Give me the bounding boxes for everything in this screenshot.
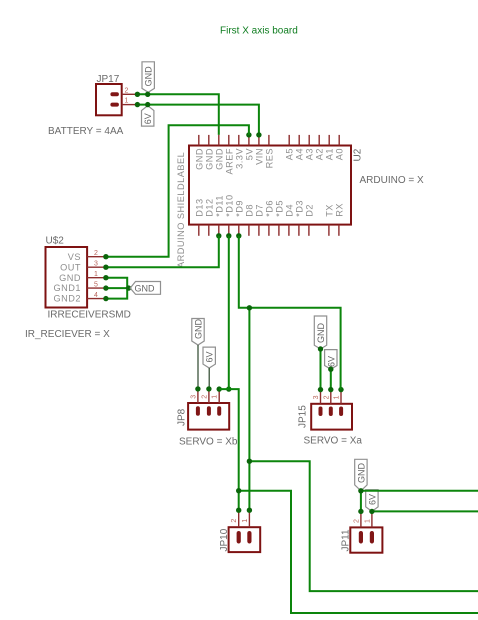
svg-text:2: 2: [94, 250, 98, 257]
svg-text:GND: GND: [135, 284, 156, 294]
wire net 6V from JP11 pin1 to right edge: [372, 510, 478, 512]
svg-text:GND2: GND2: [53, 293, 81, 303]
junction dots at U$2 pins: [103, 254, 131, 301]
svg-text:5: 5: [94, 281, 98, 288]
svg-text:D4: D4: [284, 204, 294, 217]
svg-text:ARDUINO SHIELDLABEL: ARDUINO SHIELDLABEL: [176, 152, 186, 268]
supply 6V flag at JP15: [325, 350, 337, 370]
svg-text:GND: GND: [214, 148, 224, 170]
svg-text:2: 2: [201, 395, 208, 399]
svg-text:*D5: *D5: [274, 200, 284, 217]
svg-text:1: 1: [334, 395, 341, 399]
svg-text:SERVO = Xb: SERVO = Xb: [179, 437, 238, 448]
svg-text:A0: A0: [335, 148, 345, 160]
IC U$2 IRRECEIVERSMD: [46, 247, 88, 308]
svg-text:2: 2: [125, 87, 129, 94]
svg-text:VS: VS: [68, 252, 81, 262]
svg-text:3: 3: [190, 395, 197, 399]
supply 6V flag at JP8: [203, 347, 215, 389]
wire net 6V: JP17 pin1 to Arduino VIN pin: [137, 105, 259, 135]
svg-text:1: 1: [364, 519, 371, 523]
svg-text:GND: GND: [194, 148, 204, 170]
JP15 pin stubs: [321, 390, 342, 404]
U$2 pin stubs: [87, 257, 106, 299]
svg-text:*D3: *D3: [294, 200, 304, 217]
svg-text:*D6: *D6: [264, 200, 274, 217]
junction dots at JP8 pins: [195, 386, 231, 392]
wire net *D9 branch to bottom right: [249, 461, 478, 591]
svg-text:1: 1: [242, 519, 249, 523]
svg-text:RES: RES: [264, 148, 274, 168]
svg-text:GND: GND: [194, 319, 204, 340]
wire JP15 6V stub: [330, 369, 332, 389]
svg-text:RX: RX: [334, 203, 344, 217]
wire JP11 GND stub: [360, 491, 362, 512]
svg-text:D2: D2: [304, 204, 314, 217]
svg-text:GND1: GND1: [53, 283, 81, 293]
wire net GND from JP11 pin2 to right edge: [361, 490, 478, 492]
svg-text:*D9: *D9: [234, 200, 244, 217]
wire IR GND1 to GND flag: [106, 287, 130, 289]
wire net OUT to *D11: [106, 236, 219, 267]
wire net *D10 branch to bottom right: [239, 491, 478, 613]
JP8 pin stubs: [198, 389, 219, 403]
svg-text:IRRECEIVERSMD: IRRECEIVERSMD: [48, 310, 131, 321]
svg-text:JP10: JP10: [219, 528, 230, 551]
svg-text:BATTERY = 4AA: BATTERY = 4AA: [48, 126, 124, 137]
JP11 pin stubs: [361, 511, 372, 527]
svg-text:2: 2: [231, 519, 238, 523]
U$2 pin numbers: [94, 250, 98, 299]
JP11 pin numbers: [353, 519, 371, 523]
svg-text:JP11: JP11: [340, 529, 351, 551]
svg-text:D13: D13: [194, 198, 204, 216]
svg-text:A4: A4: [295, 148, 305, 160]
svg-text:6V: 6V: [143, 113, 153, 124]
junction dots *D9 branches: [247, 305, 252, 464]
supply GND flag at JP8: [192, 319, 204, 389]
svg-text:IR_RECIEVER = X: IR_RECIEVER = X: [25, 329, 110, 340]
wire net *D10: Arduino to JP8 pin1 and beyond: [228, 236, 230, 389]
svg-text:U$2: U$2: [46, 236, 65, 247]
supply GND flag at JP17: [142, 62, 154, 93]
JP15 pin numbers: [313, 395, 341, 399]
wire JP15 GND stub: [320, 349, 322, 390]
svg-text:TX: TX: [324, 204, 334, 217]
svg-text:1: 1: [212, 395, 219, 399]
svg-text:OUT: OUT: [60, 263, 81, 273]
supply GND flag at JP15: [314, 316, 326, 349]
svg-text:2: 2: [323, 395, 330, 399]
supply GND flag at JP11: [355, 459, 367, 491]
svg-text:2: 2: [353, 519, 360, 523]
wire net VS to 5V: [106, 125, 249, 257]
svg-text:JP17: JP17: [97, 74, 120, 85]
svg-text:SERVO = Xa: SERVO = Xa: [304, 436, 363, 447]
junction dots at JP10 pins: [236, 508, 252, 513]
U2 top pin stubs: [199, 135, 339, 146]
svg-text:4: 4: [94, 292, 98, 299]
wire net GND: JP17 pin2 to Arduino GND pin: [137, 94, 218, 135]
JP10 pin numbers: [231, 519, 249, 523]
U2 bottom pin names: [194, 194, 344, 216]
svg-text:1: 1: [125, 98, 129, 105]
svg-text:1: 1: [94, 271, 98, 278]
svg-text:VIN: VIN: [254, 148, 264, 165]
junction dots at U2 pins: [216, 132, 261, 238]
svg-text:JP8: JP8: [176, 408, 187, 426]
svg-text:6V: 6V: [367, 494, 377, 505]
svg-text:6V: 6V: [326, 356, 336, 367]
svg-text:JP15: JP15: [298, 405, 309, 428]
svg-text:A3: A3: [305, 148, 315, 160]
wire net *D9: Arduino to JP15 pin1: [239, 236, 341, 390]
JP17 pin 2 stub: [122, 93, 138, 95]
U2 top pin names: [194, 148, 344, 175]
svg-text:First X axis board: First X axis board: [220, 26, 298, 37]
U2 bottom pin stubs: [199, 225, 339, 236]
junction dots at JP15: [318, 346, 344, 392]
svg-text:GND: GND: [356, 463, 366, 484]
wire net *D9 vertical branch to JP10 pin 1: [248, 308, 250, 510]
supply GND flag at U$2 (horizontal): [130, 282, 160, 295]
connector JP11: [350, 527, 382, 552]
svg-text:GND: GND: [59, 273, 81, 283]
svg-text:A5: A5: [285, 148, 295, 160]
svg-text:6V: 6V: [205, 351, 215, 362]
svg-text:A1: A1: [325, 148, 335, 160]
svg-text:GND: GND: [144, 66, 154, 87]
wire net *D10 branch to JP8 pin 1 and JP10 pin 2: [219, 389, 239, 510]
svg-text:3: 3: [94, 261, 98, 268]
svg-text:*D10: *D10: [224, 194, 234, 216]
svg-text:*D11: *D11: [214, 195, 224, 217]
svg-text:3.3V: 3.3V: [234, 148, 244, 169]
supply 6V flag at JP17: [142, 106, 154, 127]
svg-text:5V: 5V: [244, 148, 254, 161]
svg-text:A2: A2: [315, 148, 325, 160]
connector JP17: [96, 84, 122, 115]
JP8 pin numbers: [190, 395, 218, 399]
IC U2 ARDUINO SHIELDLABEL: [189, 146, 351, 225]
connector JP10: [229, 527, 261, 552]
svg-text:GND: GND: [204, 148, 214, 170]
svg-text:AREF: AREF: [224, 148, 234, 175]
junction dots at JP11: [358, 488, 374, 514]
connector JP15: [311, 404, 352, 430]
svg-text:U2: U2: [352, 148, 363, 161]
wire IR GND pins bus: [106, 278, 127, 299]
svg-text:3: 3: [313, 395, 320, 399]
svg-text:GND: GND: [316, 323, 326, 344]
junction dots at JP17: [135, 92, 151, 108]
junction dot *D10 branch: [236, 488, 241, 493]
U$2 pin names: [53, 252, 81, 303]
svg-text:ARDUINO = X: ARDUINO = X: [360, 175, 425, 186]
svg-text:D7: D7: [254, 204, 264, 217]
JP17 pin 1 stub: [122, 104, 138, 106]
svg-text:D8: D8: [244, 204, 254, 217]
connector JP8: [188, 403, 229, 430]
JP10 pin stubs: [239, 510, 250, 527]
supply 6V flag at JP11: [366, 490, 378, 512]
svg-text:D12: D12: [204, 198, 214, 216]
